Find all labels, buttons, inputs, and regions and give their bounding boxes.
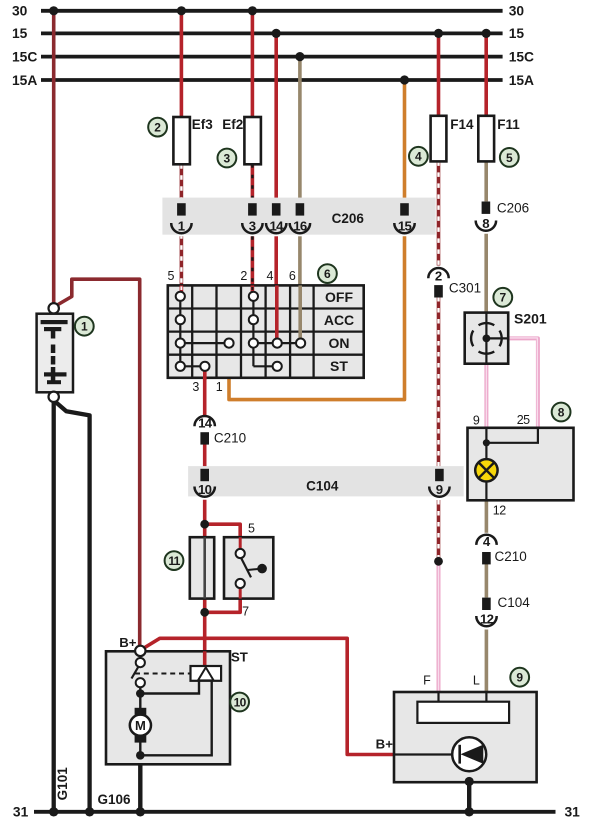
node bus15A-pin15 <box>400 75 409 84</box>
wire bus 15 <box>41 32 503 36</box>
svg-text:15A: 15A <box>509 73 534 88</box>
fuse F11 <box>478 116 494 162</box>
wire C104 pin9 to splice (red/white stripe) <box>437 500 441 561</box>
svg-text:C206: C206 <box>332 211 365 226</box>
svg-text:12: 12 <box>480 611 494 626</box>
svg-text:C104: C104 <box>306 479 339 494</box>
svg-text:30: 30 <box>12 4 28 19</box>
svg-text:Ef2: Ef2 <box>222 117 243 132</box>
svg-text:15: 15 <box>12 26 28 41</box>
wire C210 to C104 pin10 (red) <box>203 444 207 469</box>
pin labels ignition switch top <box>168 269 296 394</box>
svg-text:4: 4 <box>483 534 491 549</box>
svg-text:7: 7 <box>499 291 506 305</box>
svg-text:L: L <box>473 674 480 688</box>
svg-text:15: 15 <box>398 218 412 233</box>
wire bus 31 <box>34 810 556 814</box>
generator U9 <box>394 692 537 786</box>
wire fuse F14 to C301 (red/white stripe) <box>437 161 441 265</box>
wire solenoid feed inside starter <box>203 651 207 666</box>
svg-text:7: 7 <box>242 605 249 619</box>
ignition switch contacts <box>176 292 306 371</box>
svg-text:G101: G101 <box>55 767 70 801</box>
wire bus30 to fuse Ef2 <box>251 11 255 117</box>
svg-text:ST: ST <box>330 358 348 374</box>
svg-text:C210: C210 <box>214 431 246 446</box>
node bus31-starter <box>136 807 145 816</box>
svg-text:1: 1 <box>81 320 88 334</box>
fuse Ef3 <box>173 117 190 164</box>
solenoid coil ST <box>191 666 222 681</box>
ignition switch grid lines <box>168 285 364 377</box>
svg-text:6: 6 <box>289 269 296 283</box>
wire battery minus to ground G101 (black) <box>52 397 56 812</box>
wire bus 15C <box>41 55 503 59</box>
node bus30-Ef3 <box>177 6 186 15</box>
wire bus15 to fuse F14 (red) <box>437 33 441 115</box>
svg-text:3: 3 <box>192 380 199 394</box>
svg-text:S201: S201 <box>514 311 547 327</box>
wire interlock switch pin7 back to main (red) <box>205 586 241 612</box>
svg-text:C104: C104 <box>498 595 531 610</box>
svg-text:2: 2 <box>240 269 247 283</box>
svg-text:31: 31 <box>565 805 581 820</box>
ref 1 battery <box>75 317 94 336</box>
svg-text:4: 4 <box>415 150 422 164</box>
svg-text:30: 30 <box>509 4 525 19</box>
connector C206 pin 8 inline <box>476 202 496 231</box>
pin 16 C206 <box>290 203 310 233</box>
svg-text:10: 10 <box>198 482 212 497</box>
svg-text:1: 1 <box>178 218 185 233</box>
svg-text:8: 8 <box>482 216 489 231</box>
connector C104 right pin 12 <box>476 598 496 627</box>
svg-text:11: 11 <box>168 554 180 568</box>
svg-text:ST: ST <box>231 650 248 665</box>
pin 10 C104 <box>194 469 214 497</box>
svg-text:5: 5 <box>248 522 255 536</box>
svg-text:C206: C206 <box>497 200 529 215</box>
connector C301 upper half <box>428 268 448 298</box>
node relay top junction <box>200 520 209 529</box>
interlock switch <box>224 537 273 598</box>
ref 3 fuse Ef2 <box>218 149 237 168</box>
wire stub pin2 striped into box <box>251 285 255 293</box>
wire cluster pin12 to C210 (brown) <box>485 500 489 533</box>
wire bus30 to fuse Ef3 <box>180 11 184 117</box>
wire stub pin6 brown into box <box>298 285 302 340</box>
wire C206 pin8 to S201 (brown) <box>484 234 488 313</box>
svg-text:ACC: ACC <box>324 312 354 328</box>
wire battery plus to starter B+ (dark red) <box>56 279 140 647</box>
ref 9 generator <box>510 668 529 687</box>
node bus15-F14 <box>434 29 443 38</box>
node splice F-wire <box>434 557 443 566</box>
svg-text:2: 2 <box>435 268 442 283</box>
regulator <box>417 702 509 723</box>
svg-text:14: 14 <box>198 415 213 430</box>
wire fuse Ef2 to C206 pin3 (red/black stripe) <box>251 164 255 203</box>
ref 7 S201 <box>493 288 512 307</box>
svg-text:F11: F11 <box>497 117 520 132</box>
pin 1 C206 <box>171 203 191 233</box>
wire stub pin5 striped into box <box>180 285 184 293</box>
instrument cluster U8 <box>468 428 574 501</box>
connector strip C104 <box>188 466 464 496</box>
battery G1 <box>37 303 73 402</box>
wire S201 to cluster pin9 (pink) <box>484 364 488 428</box>
svg-text:15: 15 <box>509 26 525 41</box>
ref 11 relay <box>165 551 184 570</box>
node bus30-Ef2 <box>248 6 257 15</box>
wire bus15C to C206 pin16 (brown) <box>298 57 302 204</box>
svg-text:15A: 15A <box>12 73 37 88</box>
svg-text:4: 4 <box>267 269 274 283</box>
wire stub pin4 red into box <box>275 285 279 340</box>
svg-text:15C: 15C <box>509 49 534 64</box>
wire C104 pin10 to starter solenoid (red) <box>203 500 207 666</box>
svg-text:B+: B+ <box>376 737 394 752</box>
connector C210 upper half below switch <box>194 415 214 444</box>
wire C206 pin15 to switch pin1 (orange) <box>229 236 405 399</box>
ignition switch position labels OFF ACC ON ST <box>324 289 354 374</box>
ref 8 cluster <box>552 403 571 422</box>
lamp charge indicator <box>475 459 497 481</box>
ref 4 fuse F14 <box>409 147 428 166</box>
wire bus 15A <box>41 78 503 82</box>
ref 5 fuse F11 <box>500 148 519 167</box>
svg-text:F14: F14 <box>450 117 474 132</box>
ignition switch block U6 <box>168 285 364 380</box>
wire bus 30 <box>41 9 503 13</box>
node bus31-generator <box>465 807 474 816</box>
circled ref numbers <box>75 118 571 712</box>
connector strip C206 <box>162 198 435 235</box>
wire C210 to C104 (brown) <box>485 563 489 598</box>
svg-text:25: 25 <box>517 413 530 427</box>
node relay bottom junction <box>200 608 209 617</box>
wire branch to interlock switch pin5 (red) <box>205 524 241 551</box>
node bus15-F11 <box>482 29 491 38</box>
svg-text:C210: C210 <box>495 549 527 564</box>
motor M <box>135 708 147 716</box>
fuse F14 <box>431 116 447 162</box>
wire S201 to cluster pin25 (pink) <box>508 338 538 427</box>
svg-text:9: 9 <box>516 671 523 685</box>
svg-text:5: 5 <box>506 151 513 165</box>
svg-text:6: 6 <box>324 267 331 281</box>
svg-text:M: M <box>135 718 146 733</box>
svg-text:B+: B+ <box>119 635 137 650</box>
starter motor U10 <box>106 646 230 765</box>
ref 2 fuse Ef3 <box>148 118 167 137</box>
svg-text:3: 3 <box>249 218 256 233</box>
svg-text:1: 1 <box>216 380 223 394</box>
ref 10 starter <box>230 693 249 712</box>
node bus31-G106 <box>85 807 94 816</box>
switch S201 <box>465 313 509 364</box>
wire switch pin3 to C210 (red) <box>203 378 207 416</box>
wire bus15A to C206 pin15 (orange) <box>403 80 407 204</box>
node bus30-battery <box>49 6 58 15</box>
wire generator to bus 31 (black) <box>467 780 471 812</box>
svg-text:F: F <box>423 674 431 688</box>
pin 15 C206 <box>394 203 414 233</box>
wire splice to generator F (pink) <box>437 561 441 692</box>
svg-text:ON: ON <box>329 335 350 351</box>
wire bus15 to fuse F11 (red) <box>484 33 488 115</box>
relay resistor U11 <box>190 537 214 598</box>
svg-text:5: 5 <box>168 269 175 283</box>
svg-text:9: 9 <box>473 413 480 427</box>
svg-text:10: 10 <box>234 695 247 709</box>
node bus31-G101 <box>49 807 58 816</box>
wire C301 to C104 pin9 (red/white stripe) <box>437 297 441 469</box>
svg-text:16: 16 <box>293 218 307 233</box>
svg-text:3: 3 <box>224 151 231 165</box>
ref 6 ignition switch <box>318 264 337 283</box>
svg-text:31: 31 <box>13 805 29 820</box>
svg-text:9: 9 <box>436 482 443 497</box>
solenoid contact switch <box>139 656 141 663</box>
svg-text:12: 12 <box>493 504 506 518</box>
wire switch pin3 red stub <box>203 366 207 380</box>
svg-text:15C: 15C <box>12 49 37 64</box>
connector C210 right upper half <box>476 534 496 564</box>
wire fuse F11 to C206 pin8 (brown) <box>484 161 488 201</box>
svg-text:G106: G106 <box>98 792 132 807</box>
wire C206 pin3 to switch pin2 (red/black stripe) <box>251 236 255 285</box>
diode symbol <box>452 737 486 771</box>
node bus15-pin14 <box>272 29 281 38</box>
svg-text:14: 14 <box>270 218 285 233</box>
wire starter motor to bus 31 (black) <box>138 753 142 812</box>
wire fuse Ef3 to C206 pin1 (red/white stripe) <box>180 164 184 203</box>
wire C206 pin14 to switch pin4 (red) <box>274 236 278 285</box>
node bus15C-pin16 <box>295 52 304 61</box>
terminal B+ <box>135 646 145 656</box>
pin 14 C206 <box>266 203 286 233</box>
pin 9 C104 <box>429 469 449 497</box>
svg-text:2: 2 <box>154 121 161 135</box>
wire starter B+ to generator B+ (red) <box>142 638 395 754</box>
wire C104 pin12 to generator L (brown) <box>485 630 489 693</box>
svg-text:OFF: OFF <box>325 289 353 305</box>
pin 3 C206 <box>242 203 262 233</box>
ignition switch internal links <box>180 296 300 366</box>
wire battery feed from bus 30 (dark red) <box>52 11 56 304</box>
wire bus15 to C206 pin14 (red) <box>274 33 278 203</box>
wire C206 pin16 to switch pin6 (brown) <box>298 236 302 285</box>
wire C206 pin1 to switch pin5 (red/white stripe) <box>180 236 184 285</box>
wire battery minus branch to ground G106 (black) <box>55 402 90 812</box>
svg-text:Ef3: Ef3 <box>192 117 214 132</box>
svg-text:C301: C301 <box>449 281 481 296</box>
svg-text:8: 8 <box>558 405 565 419</box>
fuse Ef2 <box>244 117 261 164</box>
internal wiring <box>139 687 141 755</box>
